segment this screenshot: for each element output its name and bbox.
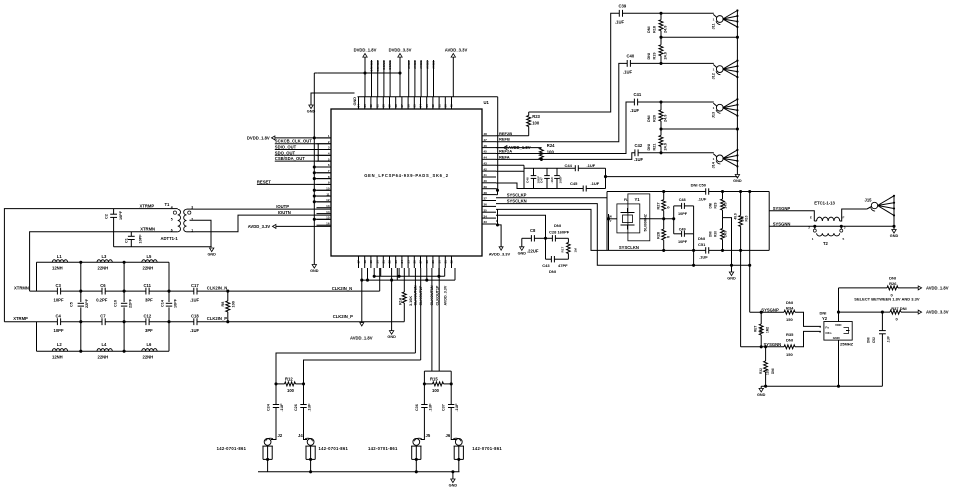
IC U1 GEN_LFCSP64-9X9-PADS_SK6_2 body: [331, 109, 482, 256]
svg-text:22NH: 22NH: [143, 266, 154, 271]
svg-text:U1: U1: [484, 100, 490, 105]
wire rail drop right side: [497, 97, 499, 189]
svg-text:5: 5: [819, 330, 821, 334]
wire bottom tie rail 2: [362, 279, 455, 281]
svg-text:R19: R19: [653, 53, 657, 60]
svg-text:46: 46: [484, 144, 488, 148]
svg-text:DNI: DNI: [698, 236, 705, 241]
wire T1 center tap to ground: [190, 220, 212, 247]
svg-text:R20: R20: [653, 115, 657, 122]
svg-text:T1: T1: [165, 202, 171, 207]
svg-text:L1: L1: [57, 254, 63, 259]
svg-text:GND: GND: [307, 110, 316, 114]
svg-text:C1: C1: [125, 238, 129, 243]
svg-text:C3: C3: [56, 283, 62, 288]
wire J11-J14 ground bus: [736, 11, 738, 175]
svg-text:DNI: DNI: [647, 26, 651, 33]
svg-text:DNI: DNI: [820, 310, 827, 315]
capacitor bank box C44 C45: [523, 165, 525, 188]
svg-text:25: 25: [406, 260, 410, 264]
wire vertical tie pins 2-5: [317, 144, 319, 161]
svg-text:REF2B: REF2B: [499, 131, 512, 136]
power AVDD_1.8V under IC: [361, 280, 363, 322]
svg-text:C28 160PF: C28 160PF: [549, 229, 570, 234]
svg-text:C42: C42: [635, 143, 643, 148]
svg-text:10PF: 10PF: [678, 240, 688, 244]
wire T2 top winding right to J15: [840, 209, 867, 221]
svg-text:AVDD_3.3V: AVDD_3.3V: [443, 285, 447, 305]
svg-text:DVDD_1.8V: DVDD_1.8V: [354, 48, 377, 53]
wire CLKOUT2N route to R12 left: [276, 353, 415, 384]
svg-text:C43: C43: [542, 263, 550, 268]
svg-text:GND: GND: [757, 393, 766, 397]
svg-text:C6: C6: [100, 283, 106, 288]
svg-text:32: 32: [450, 260, 454, 264]
wire Y1 left pin to rails: [609, 218, 617, 220]
svg-text:R27: R27: [657, 203, 661, 210]
ground below crystal box: [729, 272, 733, 276]
svg-text:18: 18: [363, 260, 367, 264]
svg-text:.1UF: .1UF: [428, 403, 432, 412]
svg-text:26: 26: [413, 260, 417, 264]
svg-text:R35: R35: [786, 332, 794, 337]
ground under IC: [391, 280, 393, 331]
svg-text:100: 100: [532, 120, 540, 125]
svg-text:R17: R17: [561, 247, 565, 253]
wire pin34 to C8 node: [496, 215, 546, 238]
IC U1 left pin stubs and numbers: [317, 137, 332, 139]
svg-text:24.9: 24.9: [664, 143, 668, 150]
wire pin40 to cap box bottom: [496, 183, 524, 189]
svg-text:SELECT BETWEEN 1.8V AND 3.3V: SELECT BETWEEN 1.8V AND 3.3V: [854, 296, 920, 301]
svg-text:25MHZ: 25MHZ: [840, 342, 854, 347]
svg-text:SYSGNP: SYSGNP: [761, 307, 779, 312]
svg-text:41: 41: [484, 173, 488, 177]
svg-text:REFA: REFA: [499, 155, 510, 160]
svg-text:J5: J5: [426, 433, 431, 438]
svg-text:1: 1: [713, 18, 715, 22]
svg-text:13: 13: [326, 204, 330, 208]
svg-text:24: 24: [400, 260, 404, 264]
svg-text:37: 37: [484, 197, 488, 201]
svg-text:C47: C47: [540, 177, 544, 183]
svg-text:C40: C40: [627, 54, 635, 59]
svg-text:10UF: 10UF: [559, 176, 563, 184]
svg-text:ETC1-1-13: ETC1-1-13: [814, 201, 835, 206]
wire Y2 VDD up: [838, 288, 840, 322]
svg-text:52: 52: [431, 104, 435, 108]
svg-text:R24: R24: [547, 143, 555, 148]
svg-text:44: 44: [484, 156, 488, 160]
svg-text:J4: J4: [298, 433, 303, 438]
svg-text:0: 0: [667, 236, 671, 238]
svg-text:42: 42: [484, 167, 488, 171]
svg-text:C44: C44: [565, 163, 573, 168]
svg-text:C48: C48: [679, 198, 686, 202]
svg-text:35: 35: [484, 208, 488, 212]
svg-text:51: 51: [437, 104, 441, 108]
svg-text:REF2A: REF2A: [499, 149, 512, 154]
svg-text:DNI: DNI: [647, 53, 651, 60]
wire SYSGNP drop from top rail: [748, 190, 751, 193]
svg-text:R14: R14: [399, 297, 403, 305]
svg-text:C17: C17: [191, 283, 199, 288]
svg-text:CSB/SDA_OUT: CSB/SDA_OUT: [275, 156, 305, 161]
wire C49 to lower rail: [693, 234, 695, 265]
wire filter top branch: [37, 261, 170, 263]
svg-text:64: 64: [357, 104, 361, 108]
svg-text:J6: J6: [446, 433, 451, 438]
top pin tie rail: [358, 96, 498, 98]
svg-text:R29: R29: [714, 202, 718, 208]
svg-text:3PF: 3PF: [145, 328, 153, 333]
svg-text:3.16K: 3.16K: [409, 296, 413, 306]
wire cap box to GND bus: [604, 175, 607, 178]
svg-text:C45: C45: [570, 181, 578, 186]
svg-text:C51: C51: [698, 242, 706, 247]
svg-text:DNI: DNI: [889, 276, 896, 281]
transformer T2 bottom winding: [817, 233, 840, 236]
svg-text:10PF: 10PF: [678, 212, 688, 216]
svg-text:50: 50: [444, 104, 448, 108]
svg-text:L3: L3: [102, 254, 108, 259]
svg-text:J15: J15: [865, 197, 873, 202]
svg-text:1M2: 1M2: [766, 327, 770, 333]
ground C8: [521, 238, 523, 247]
svg-text:23: 23: [394, 260, 398, 264]
IC U1 bottom pin stubs and numbers: [358, 256, 360, 268]
svg-text:C37: C37: [442, 404, 446, 411]
svg-text:GND: GND: [353, 97, 357, 106]
svg-text:.1UF: .1UF: [615, 20, 625, 25]
svg-text:DGND: DGND: [382, 60, 386, 70]
svg-text:AVDD_3.3V: AVDD_3.3V: [926, 310, 949, 315]
svg-text:1: 1: [812, 237, 814, 241]
svg-text:REFB: REFB: [499, 137, 510, 142]
svg-text:IOUTN: IOUTN: [278, 210, 291, 215]
svg-text:100: 100: [547, 149, 555, 154]
svg-text:DNI: DNI: [709, 203, 713, 209]
svg-text:24.9: 24.9: [664, 26, 668, 33]
svg-text:53: 53: [425, 104, 429, 108]
svg-text:AVDD_1.8V: AVDD_1.8V: [350, 336, 373, 341]
svg-text:C36: C36: [415, 404, 419, 411]
tall verticals with net labels top: [371, 60, 373, 97]
svg-text:16: 16: [326, 221, 330, 225]
svg-text:5: 5: [843, 237, 845, 241]
svg-text:40: 40: [484, 179, 488, 183]
svg-text:20: 20: [375, 260, 379, 264]
svg-text:L6: L6: [147, 342, 153, 347]
svg-text:J12: J12: [712, 73, 716, 79]
wire J13 termination line: [661, 128, 737, 130]
svg-text:DNI: DNI: [786, 300, 793, 305]
svg-text:DNI: DNI: [771, 368, 775, 374]
svg-text:48: 48: [484, 132, 488, 136]
svg-text:R34: R34: [786, 306, 794, 311]
svg-text:142-0701-861: 142-0701-861: [319, 446, 349, 451]
wire bottom ground rail: [258, 471, 460, 473]
svg-text:DVDD_1.8V: DVDD_1.8V: [247, 135, 270, 140]
svg-text:39: 39: [484, 185, 488, 189]
svg-text:55: 55: [413, 104, 417, 108]
svg-text:57: 57: [400, 104, 404, 108]
svg-text:C39: C39: [619, 4, 627, 9]
svg-text:49.9: 49.9: [734, 213, 738, 219]
svg-text:GEN_LFCSP64-9X9-PADS_SK6_2: GEN_LFCSP64-9X9-PADS_SK6_2: [364, 173, 449, 178]
crystal Y1 50.000MHZ box: [617, 204, 640, 233]
svg-text:C26: C26: [294, 404, 298, 411]
svg-text:AVDD: AVDD: [407, 60, 411, 69]
svg-text:56: 56: [406, 104, 410, 108]
svg-text:DGND: DGND: [388, 60, 392, 70]
svg-text:3PF: 3PF: [145, 298, 153, 303]
svg-text:38: 38: [484, 191, 488, 195]
svg-text:24.9: 24.9: [664, 115, 668, 122]
svg-text:1: 1: [713, 106, 715, 110]
svg-text:DNI: DNI: [647, 144, 651, 151]
svg-text:CLK2IN_N: CLK2IN_N: [332, 286, 352, 291]
svg-text:14: 14: [326, 210, 330, 214]
svg-text:SDIO_OUT: SDIO_OUT: [275, 145, 297, 150]
wire Y2 GND down: [838, 340, 840, 386]
svg-text:RESET: RESET: [257, 179, 271, 184]
svg-text:.1UF: .1UF: [550, 177, 554, 184]
svg-text:CLK2IN_P: CLK2IN_P: [207, 316, 227, 321]
svg-text:GND: GND: [207, 253, 216, 257]
svg-text:36: 36: [484, 203, 488, 207]
svg-text:AVDD: AVDD: [413, 60, 417, 69]
svg-text:L2: L2: [57, 342, 63, 347]
wire C48 C49 loop: [673, 206, 675, 234]
svg-text:CLK2IN_P: CLK2IN_P: [333, 314, 353, 319]
svg-text:GND: GND: [518, 251, 527, 255]
svg-text:59: 59: [388, 104, 392, 108]
svg-text:C10: C10: [114, 300, 118, 307]
ground bottom rail: [452, 472, 454, 479]
svg-text:Y2: Y2: [822, 316, 828, 321]
svg-text:C4: C4: [56, 314, 62, 319]
svg-text:2: 2: [808, 226, 810, 230]
wire R29 R30 mid to ground: [723, 218, 732, 272]
svg-text:R30: R30: [714, 231, 718, 237]
svg-text:J13: J13: [712, 112, 716, 118]
svg-text:C24: C24: [267, 403, 271, 411]
ground J15: [892, 230, 896, 234]
svg-text:22NH: 22NH: [98, 355, 109, 360]
svg-text:0: 0: [667, 206, 671, 208]
svg-text:SYSGNN: SYSGNN: [773, 222, 791, 227]
wire pins 39 38 tie: [497, 189, 499, 195]
svg-text:AVDD_1.8V: AVDD_1.8V: [926, 285, 949, 290]
svg-text:E: E: [810, 216, 812, 220]
svg-text:C12: C12: [144, 314, 152, 319]
svg-text:IOUTP: IOUTP: [276, 204, 289, 209]
svg-text:C41: C41: [634, 92, 642, 97]
wire CLKOUT2P route to R12 right: [304, 360, 421, 384]
svg-text:4: 4: [819, 325, 821, 329]
svg-text:R21: R21: [653, 144, 657, 151]
svg-text:10PF: 10PF: [119, 210, 123, 220]
svg-text:100: 100: [232, 301, 236, 307]
svg-text:R23: R23: [532, 114, 540, 119]
ground top-left of IC: [311, 93, 355, 105]
svg-text:27: 27: [419, 260, 423, 264]
svg-text:R26: R26: [889, 281, 897, 286]
wire SYSGNN drop from bottom rail: [740, 250, 742, 346]
svg-text:C46: C46: [526, 177, 530, 183]
svg-text:GND: GND: [727, 277, 736, 281]
svg-text:10PF: 10PF: [174, 298, 178, 308]
svg-text:F: F: [843, 216, 845, 220]
svg-text:DRVDD: DRVDD: [376, 60, 380, 72]
wire pin42 to cap box: [496, 170, 524, 172]
svg-text:142-0701-861: 142-0701-861: [217, 446, 247, 451]
svg-text:AVDD_3.3V: AVDD_3.3V: [445, 48, 468, 53]
svg-text:47: 47: [484, 138, 488, 142]
svg-text:DNI: DNI: [647, 115, 651, 122]
svg-text:12NH: 12NH: [52, 266, 63, 271]
node pin1 junction on left bus: [313, 136, 316, 139]
svg-text:C14: C14: [161, 299, 165, 307]
svg-text:C18: C18: [191, 314, 199, 319]
svg-text:DVDD_3.3V: DVDD_3.3V: [389, 48, 412, 53]
svg-text:T2: T2: [823, 241, 829, 246]
svg-text:R8: R8: [221, 302, 225, 307]
wire R35 to Y2 pin5: [796, 331, 821, 346]
svg-text:60: 60: [382, 104, 386, 108]
svg-text:SYSCLKP: SYSCLKP: [507, 193, 527, 198]
svg-text:SYSCLKN: SYSCLKN: [507, 198, 527, 203]
wire C1 C2 ground rail: [114, 246, 212, 248]
svg-text:DNI: DNI: [549, 269, 556, 274]
svg-text:DNI: DNI: [867, 337, 871, 343]
svg-text:50,000MHZ: 50,000MHZ: [643, 214, 647, 231]
svg-text:142-0701-861: 142-0701-861: [472, 446, 502, 451]
svg-text:C11: C11: [144, 283, 152, 288]
svg-text:34: 34: [484, 214, 488, 218]
svg-text:.1UF: .1UF: [887, 336, 891, 343]
svg-text:OFo: OFo: [825, 331, 831, 335]
wire pin33 to AVDD_3.3V: [496, 220, 498, 222]
wire Y1 output node: [640, 218, 674, 220]
svg-text:XTRMN: XTRMN: [140, 227, 155, 232]
svg-text:AVDD_3.3V: AVDD_3.3V: [248, 224, 271, 229]
svg-text:100: 100: [432, 388, 440, 393]
svg-text:R12: R12: [285, 376, 293, 381]
svg-text:XTRMP: XTRMP: [13, 316, 28, 321]
svg-text:29: 29: [431, 260, 435, 264]
svg-text:10PF: 10PF: [54, 328, 64, 333]
svg-text:.1UF: .1UF: [190, 328, 200, 333]
wire J15 ground bus: [893, 196, 895, 230]
svg-text:28: 28: [425, 260, 429, 264]
svg-text:22NH: 22NH: [98, 266, 109, 271]
svg-text:AVDD: AVDD: [419, 60, 423, 69]
svg-text:AVDD: AVDD: [425, 60, 429, 69]
svg-text:DRVDD: DRVDD: [370, 60, 374, 72]
svg-text:GND: GND: [833, 336, 841, 340]
svg-text:.1UF: .1UF: [634, 157, 644, 162]
svg-text:19: 19: [369, 260, 373, 264]
svg-text:100: 100: [287, 388, 295, 393]
svg-text:C5: C5: [70, 302, 74, 307]
svg-text:49: 49: [450, 104, 454, 108]
svg-text:SDO_OUT: SDO_OUT: [275, 150, 296, 155]
svg-text:10PF: 10PF: [139, 234, 143, 244]
svg-text:GND: GND: [310, 269, 319, 273]
svg-text:.1UF: .1UF: [280, 403, 284, 412]
svg-text:150: 150: [786, 317, 793, 322]
svg-text:.1UF: .1UF: [698, 197, 707, 202]
svg-text:43: 43: [484, 161, 488, 165]
crystal symbol Y1: [623, 215, 633, 223]
svg-text:10PF: 10PF: [54, 298, 64, 303]
svg-text:ADTT1-1: ADTT1-1: [161, 236, 179, 241]
svg-text:2: 2: [191, 218, 193, 222]
svg-text:3: 3: [844, 226, 846, 230]
svg-text:22PF: 22PF: [129, 298, 133, 308]
svg-text:L4: L4: [102, 342, 108, 347]
svg-text:SYSCLKN: SYSCLKN: [619, 245, 639, 250]
svg-text:1M: 1M: [574, 248, 578, 253]
svg-text:RET: RET: [754, 326, 758, 332]
svg-text:61: 61: [375, 104, 379, 108]
svg-text:62: 62: [369, 104, 373, 108]
svg-text:SCKCB_CLK_OUT: SCKCB_CLK_OUT: [275, 139, 312, 144]
svg-text:VDD: VDD: [835, 323, 842, 327]
svg-text:Fo: Fo: [825, 326, 829, 330]
svg-text:CLK2IN_N: CLK2IN_N: [207, 285, 227, 290]
svg-text:R15: R15: [430, 376, 438, 381]
svg-text:63: 63: [363, 104, 367, 108]
svg-text:150: 150: [786, 352, 793, 357]
svg-text:.1UF: .1UF: [591, 181, 600, 186]
wire left bus to top rail: [314, 72, 318, 74]
svg-text:DNI: DNI: [786, 338, 793, 343]
svg-text:GND: GND: [387, 335, 396, 339]
svg-text:.1UF: .1UF: [190, 298, 200, 303]
wire J11 termination line: [661, 36, 737, 38]
svg-text:58: 58: [394, 104, 398, 108]
svg-text:L5: L5: [147, 254, 153, 259]
svg-text:C7: C7: [100, 314, 106, 319]
svg-text:Y1: Y1: [635, 197, 641, 202]
left GND bus vertical: [313, 73, 315, 265]
svg-text:SYSGNP: SYSGNP: [773, 206, 791, 211]
svg-text:0: 0: [896, 316, 899, 321]
IC U1 right pin stubs and numbers: [482, 135, 496, 137]
wire filter bottom branch: [37, 350, 170, 352]
ground J bus: [735, 175, 739, 179]
wire crystal box outline: [606, 192, 608, 251]
wire bottom right ground rail: [761, 385, 882, 387]
svg-text:24.9: 24.9: [664, 52, 668, 59]
svg-text:22: 22: [388, 260, 392, 264]
svg-text:45: 45: [484, 150, 488, 154]
svg-text:FL: FL: [624, 198, 628, 202]
svg-text:1: 1: [713, 157, 715, 161]
svg-text:GND: GND: [733, 179, 742, 183]
svg-text:C8: C8: [530, 228, 536, 233]
svg-text:GND: GND: [449, 484, 458, 488]
svg-text:.1UF: .1UF: [630, 108, 640, 113]
svg-text:5: 5: [171, 218, 173, 222]
svg-text:.22UF: .22UF: [527, 249, 539, 254]
wire R23 top to C39: [529, 13, 620, 112]
svg-text:.1UF: .1UF: [308, 403, 312, 412]
wire R34 to Y2 pin4: [796, 312, 821, 326]
